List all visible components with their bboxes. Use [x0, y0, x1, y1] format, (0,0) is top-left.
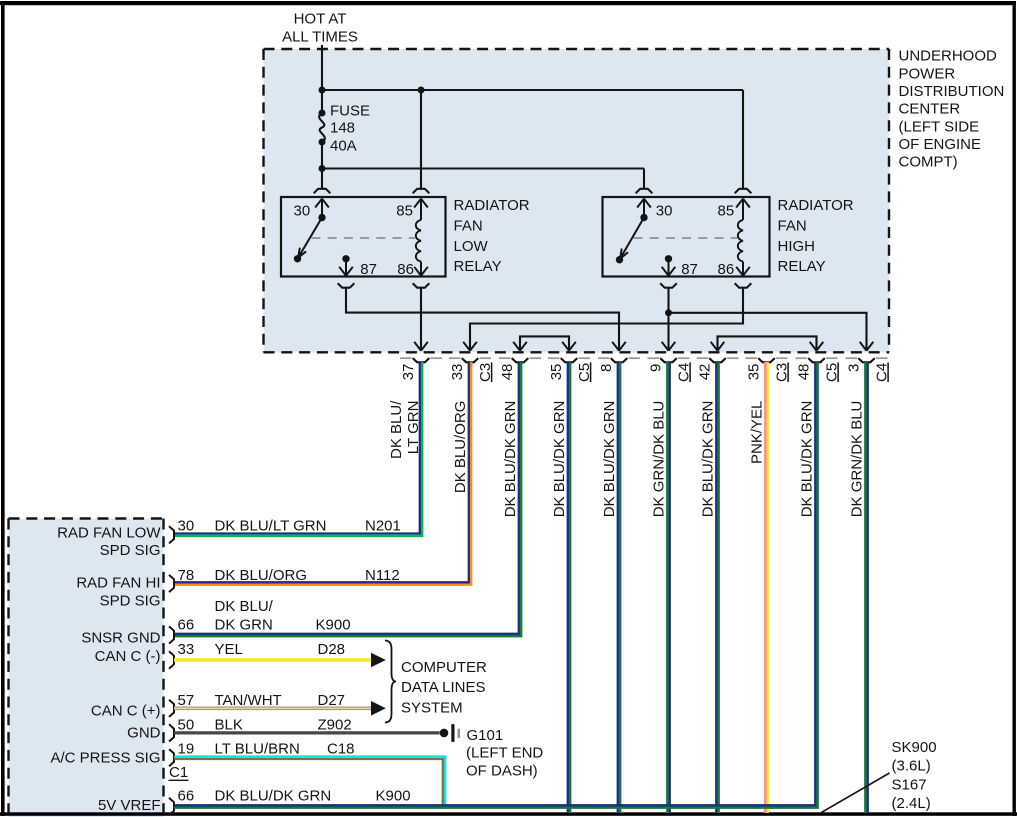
- svg-text:DK BLU/LT GRN: DK BLU/LT GRN: [215, 518, 327, 535]
- svg-text:148: 148: [330, 120, 355, 137]
- svg-text:FUSE: FUSE: [330, 103, 370, 120]
- svg-text:LOW: LOW: [454, 238, 489, 255]
- svg-text:87: 87: [681, 261, 698, 278]
- svg-text:LT BLU/BRN: LT BLU/BRN: [215, 741, 300, 758]
- svg-text:K900: K900: [376, 788, 411, 805]
- svg-text:(LEFT SIDE: (LEFT SIDE: [899, 118, 980, 135]
- svg-text:86: 86: [397, 261, 414, 278]
- svg-text:DK BLU/ORG: DK BLU/ORG: [452, 401, 469, 494]
- svg-text:DK GRN/DK BLU: DK GRN/DK BLU: [849, 401, 866, 518]
- svg-text:3: 3: [845, 364, 862, 372]
- svg-text:RAD FAN HI: RAD FAN HI: [76, 574, 160, 591]
- svg-text:DK BLU/: DK BLU/: [388, 400, 405, 459]
- svg-text:D28: D28: [318, 641, 346, 658]
- svg-text:RADIATOR: RADIATOR: [454, 197, 530, 214]
- svg-text:OF DASH): OF DASH): [466, 763, 538, 780]
- svg-text:DK GRN/DK BLU: DK GRN/DK BLU: [651, 401, 668, 518]
- svg-text:50: 50: [178, 716, 195, 733]
- svg-text:UNDERHOOD: UNDERHOOD: [899, 48, 998, 65]
- svg-text:BLK: BLK: [215, 716, 243, 733]
- svg-text:DK BLU/DK GRN: DK BLU/DK GRN: [551, 401, 568, 518]
- svg-text:RELAY: RELAY: [778, 258, 826, 275]
- svg-text:DK BLU/DK GRN: DK BLU/DK GRN: [799, 401, 816, 518]
- svg-text:40A: 40A: [330, 138, 357, 155]
- svg-text:S167: S167: [892, 776, 927, 793]
- svg-text:COMPT): COMPT): [899, 154, 958, 171]
- svg-text:POWER: POWER: [899, 65, 956, 82]
- svg-text:C18: C18: [327, 741, 355, 758]
- svg-text:(2.4L): (2.4L): [892, 795, 931, 812]
- svg-text:TAN/WHT: TAN/WHT: [215, 692, 282, 709]
- svg-text:85: 85: [718, 202, 735, 219]
- svg-text:SYSTEM: SYSTEM: [401, 700, 463, 717]
- svg-text:DK BLU/DK GRN: DK BLU/DK GRN: [215, 788, 332, 805]
- svg-text:30: 30: [294, 202, 311, 219]
- svg-text:19: 19: [178, 741, 195, 758]
- svg-text:GND: GND: [127, 724, 161, 741]
- svg-text:RADIATOR: RADIATOR: [778, 197, 854, 214]
- svg-text:66: 66: [178, 788, 195, 805]
- svg-text:YEL: YEL: [215, 641, 243, 658]
- svg-text:DK BLU/DK GRN: DK BLU/DK GRN: [601, 401, 618, 518]
- svg-text:5V VREF: 5V VREF: [98, 797, 161, 814]
- svg-text:RAD FAN LOW: RAD FAN LOW: [57, 524, 161, 541]
- svg-text:ALL TIMES: ALL TIMES: [282, 29, 358, 46]
- svg-text:DK BLU/DK GRN: DK BLU/DK GRN: [502, 401, 519, 518]
- svg-text:57: 57: [178, 692, 195, 709]
- svg-text:SPD SIG: SPD SIG: [100, 542, 161, 559]
- svg-text:SK900: SK900: [892, 739, 937, 756]
- svg-text:66: 66: [178, 616, 195, 633]
- svg-text:N112: N112: [365, 567, 400, 584]
- svg-text:DISTRIBUTION: DISTRIBUTION: [899, 83, 1005, 100]
- svg-text:33: 33: [178, 641, 195, 658]
- svg-text:9: 9: [647, 364, 664, 372]
- svg-text:HOT AT: HOT AT: [294, 10, 347, 27]
- svg-text:DK BLU/: DK BLU/: [215, 598, 274, 615]
- svg-text:C1: C1: [169, 764, 188, 781]
- svg-text:8: 8: [598, 364, 615, 372]
- svg-text:DK BLU/ORG: DK BLU/ORG: [215, 567, 308, 584]
- svg-text:CENTER: CENTER: [899, 101, 961, 118]
- svg-text:87: 87: [360, 261, 377, 278]
- svg-text:(LEFT END: (LEFT END: [466, 745, 543, 762]
- svg-text:G101: G101: [467, 727, 504, 744]
- svg-text:PNK/YEL: PNK/YEL: [749, 401, 766, 464]
- svg-text:DK GRN: DK GRN: [215, 616, 273, 633]
- svg-text:78: 78: [178, 567, 195, 584]
- svg-text:48: 48: [499, 364, 516, 381]
- svg-text:HIGH: HIGH: [778, 238, 816, 255]
- svg-text:35: 35: [548, 364, 565, 381]
- svg-text:30: 30: [178, 518, 195, 535]
- svg-text:35: 35: [745, 364, 762, 381]
- svg-text:42: 42: [696, 364, 713, 381]
- svg-text:30: 30: [656, 202, 673, 219]
- svg-text:CAN C (-): CAN C (-): [95, 648, 161, 665]
- svg-text:FAN: FAN: [778, 217, 807, 234]
- svg-text:37: 37: [400, 364, 417, 381]
- svg-text:86: 86: [718, 261, 735, 278]
- svg-text:N201: N201: [365, 518, 401, 535]
- svg-text:LT GRN: LT GRN: [405, 401, 422, 455]
- svg-text:COMPUTER: COMPUTER: [401, 659, 487, 676]
- svg-text:A/C PRESS SIG: A/C PRESS SIG: [50, 749, 160, 766]
- svg-text:DK BLU/DK GRN: DK BLU/DK GRN: [700, 401, 717, 518]
- svg-text:48: 48: [795, 364, 812, 381]
- svg-text:OF ENGINE: OF ENGINE: [899, 136, 982, 153]
- svg-text:D27: D27: [318, 692, 346, 709]
- svg-text:(3.6L): (3.6L): [892, 758, 931, 775]
- svg-text:FAN: FAN: [454, 217, 483, 234]
- svg-text:33: 33: [449, 364, 466, 381]
- svg-text:85: 85: [396, 202, 413, 219]
- svg-text:K900: K900: [316, 616, 351, 633]
- svg-text:SNSR GND: SNSR GND: [81, 629, 160, 646]
- svg-text:DATA LINES: DATA LINES: [401, 679, 485, 696]
- svg-text:SPD SIG: SPD SIG: [100, 592, 161, 609]
- svg-text:Z902: Z902: [318, 716, 352, 733]
- svg-text:CAN C (+): CAN C (+): [91, 702, 161, 719]
- svg-text:RELAY: RELAY: [454, 258, 502, 275]
